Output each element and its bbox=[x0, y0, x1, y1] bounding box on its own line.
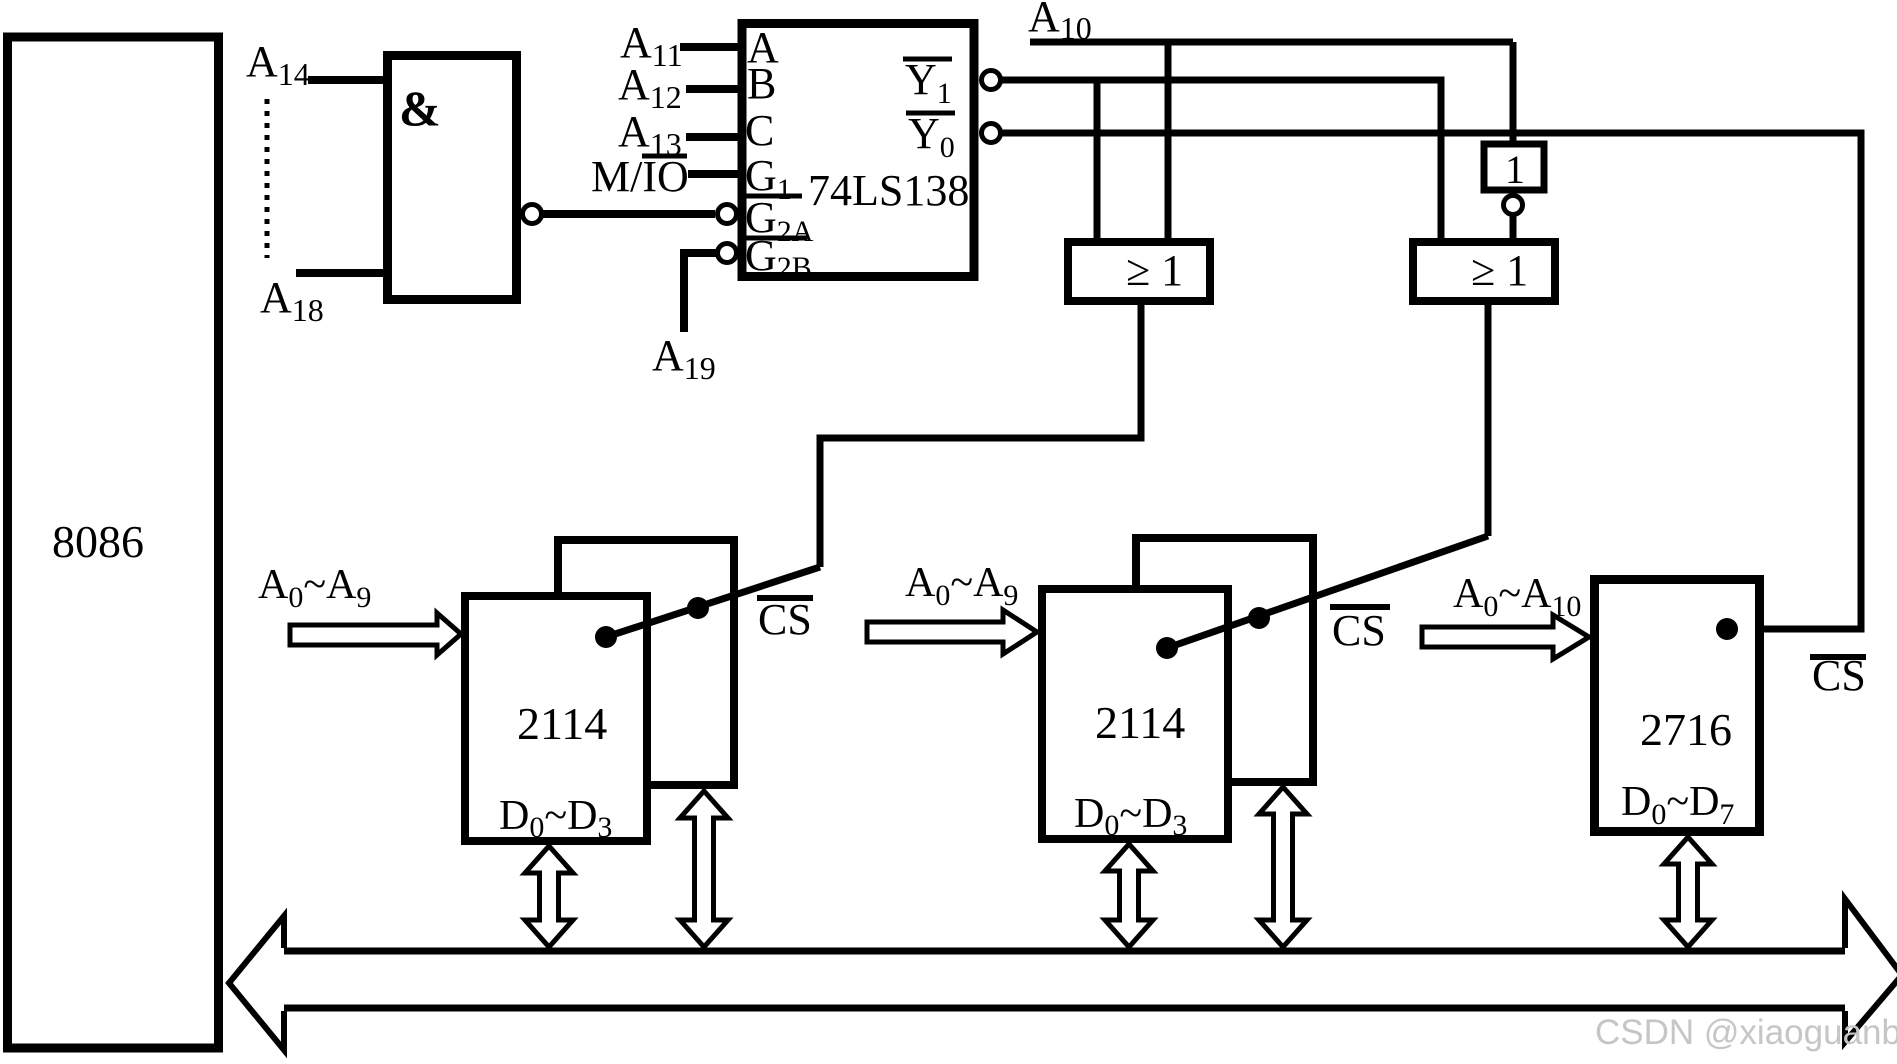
junction dot RAM2 back bbox=[1248, 607, 1270, 629]
ROM 2716 bbox=[1595, 580, 1760, 832]
svg-text:&: & bbox=[399, 80, 441, 136]
junction dot RAM1 back bbox=[687, 597, 709, 619]
svg-text:CSDN @xiaoguanb: CSDN @xiaoguanb bbox=[1595, 1013, 1897, 1052]
CS diagonal RAM2 bbox=[1167, 536, 1488, 648]
svg-text:8086: 8086 bbox=[52, 516, 144, 567]
data arrow RAM2 back bbox=[1259, 787, 1307, 947]
RAM 2114 #2 front chip bbox=[1042, 589, 1228, 842]
AND output bubble bbox=[523, 205, 542, 224]
svg-text:A0~A9: A0~A9 bbox=[258, 562, 371, 614]
CS diagonal RAM1 bbox=[606, 567, 820, 637]
data arrow RAM1 back bbox=[680, 791, 728, 947]
G2B bubble bbox=[718, 244, 737, 263]
svg-text:2114: 2114 bbox=[517, 698, 607, 749]
junction dot RAM1 front bbox=[595, 626, 617, 648]
svg-text:D0~D3: D0~D3 bbox=[1074, 791, 1187, 842]
wire Y1 bbox=[1002, 80, 1441, 242]
svg-text:C: C bbox=[745, 106, 774, 155]
ROM CS junction dot bbox=[1716, 618, 1738, 640]
wire inverter to OR2 bbox=[1510, 216, 1517, 242]
wire AND output to G2A bbox=[543, 210, 715, 218]
label CS RAM2 bbox=[1330, 606, 1390, 655]
RAM 2114 #2 back chip bbox=[1136, 538, 1313, 782]
svg-text:M/IO: M/IO bbox=[591, 152, 689, 201]
bus left arrowhead bbox=[229, 916, 284, 1050]
svg-text:2716: 2716 bbox=[1640, 704, 1732, 755]
signal A19 to G2B bbox=[652, 253, 716, 386]
G2A bubble bbox=[718, 205, 737, 224]
wire Y0 to ROM CS bbox=[1002, 133, 1861, 629]
label CS RAM1 bbox=[757, 595, 813, 644]
AND gate U1 bbox=[388, 56, 517, 300]
wire OR2 to RAM2 CS bbox=[1485, 301, 1492, 536]
data arrow RAM2 front bbox=[1105, 844, 1153, 947]
address arrow RAM2 bbox=[867, 610, 1037, 654]
signal A10 bbox=[1028, 0, 1513, 46]
OR gate 1 bbox=[1068, 242, 1210, 301]
Y0 output bubble bbox=[982, 124, 1001, 143]
svg-text:74LS138: 74LS138 bbox=[808, 166, 969, 215]
data arrow RAM1 front bbox=[525, 846, 573, 947]
address arrow ROM bbox=[1422, 615, 1589, 659]
wire OR1 to RAM1 CS bbox=[820, 301, 1141, 567]
svg-text:CS: CS bbox=[1332, 606, 1386, 655]
junction dot RAM2 front bbox=[1156, 637, 1178, 659]
inverter output bubble bbox=[1504, 196, 1523, 215]
svg-text:CS: CS bbox=[758, 595, 812, 644]
wire A10 to OR1 bbox=[1165, 42, 1172, 242]
Y1 output bubble bbox=[982, 71, 1001, 90]
system data bus top line bbox=[284, 948, 1845, 955]
wire A10 to inverter bbox=[1510, 42, 1517, 144]
RAM 2114 #1 back chip bbox=[558, 540, 734, 785]
ellipsis dotted line bbox=[265, 99, 270, 258]
RAM 2114 #1 front chip bbox=[465, 596, 647, 844]
svg-text:CS: CS bbox=[1812, 651, 1866, 700]
decoder 74LS138 bbox=[742, 23, 974, 284]
inverter gate bbox=[1484, 144, 1544, 192]
signal M/IO pin G1 bbox=[591, 152, 738, 201]
bus right arrowhead bbox=[1845, 899, 1897, 1042]
svg-text:D0~D3: D0~D3 bbox=[499, 793, 612, 844]
svg-text:1: 1 bbox=[1505, 147, 1525, 192]
svg-text:≥ 1: ≥ 1 bbox=[1126, 246, 1183, 295]
signal A18 bbox=[260, 273, 383, 328]
svg-text:D0~D7: D0~D7 bbox=[1621, 779, 1734, 831]
svg-text:2114: 2114 bbox=[1095, 697, 1185, 748]
signal A13 pin C bbox=[618, 107, 738, 162]
svg-text:B: B bbox=[747, 59, 776, 108]
label CS ROM bbox=[1810, 651, 1866, 700]
address arrow RAM1 bbox=[290, 613, 461, 655]
system data bus bottom line bbox=[284, 1005, 1845, 1012]
wire Y1 to OR1 bbox=[1094, 80, 1101, 242]
signal A14 bbox=[246, 37, 383, 92]
signal A11 pin A bbox=[620, 18, 738, 73]
CPU 8086 bbox=[8, 37, 219, 1048]
svg-text:≥ 1: ≥ 1 bbox=[1471, 246, 1528, 295]
svg-text:A0~A9: A0~A9 bbox=[905, 560, 1018, 612]
data arrow ROM bbox=[1664, 837, 1712, 947]
signal A12 pin B bbox=[618, 60, 738, 115]
OR gate 2 bbox=[1413, 242, 1555, 301]
